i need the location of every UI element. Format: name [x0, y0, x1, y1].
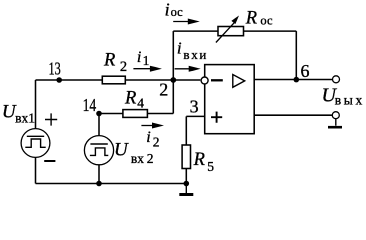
- svg-text:вых: вых: [335, 93, 365, 108]
- svg-text:i: i: [146, 129, 150, 146]
- svg-text:5: 5: [207, 159, 214, 174]
- svg-text:вх1: вх1: [15, 110, 35, 125]
- svg-text:1: 1: [143, 53, 150, 68]
- svg-text:ос: ос: [260, 14, 273, 28]
- svg-text:i: i: [137, 49, 141, 66]
- svg-text:R: R: [124, 89, 136, 109]
- svg-text:R: R: [103, 51, 115, 71]
- svg-text:i: i: [165, 0, 170, 20]
- svg-text:13: 13: [49, 58, 61, 78]
- svg-text:R: R: [193, 150, 205, 170]
- svg-text:R: R: [245, 9, 257, 29]
- svg-text:ос: ос: [171, 5, 184, 19]
- svg-text:вх 2: вх 2: [131, 151, 154, 166]
- svg-text:2: 2: [153, 134, 160, 149]
- svg-text:2: 2: [120, 59, 127, 75]
- svg-text:3: 3: [190, 97, 199, 117]
- svg-text:вхи: вхи: [183, 47, 208, 62]
- svg-text:i: i: [177, 38, 182, 57]
- svg-text:14: 14: [83, 95, 97, 115]
- svg-text:U: U: [114, 140, 129, 161]
- svg-text:4: 4: [137, 95, 144, 110]
- svg-text:2: 2: [159, 79, 168, 99]
- svg-text:6: 6: [301, 61, 310, 81]
